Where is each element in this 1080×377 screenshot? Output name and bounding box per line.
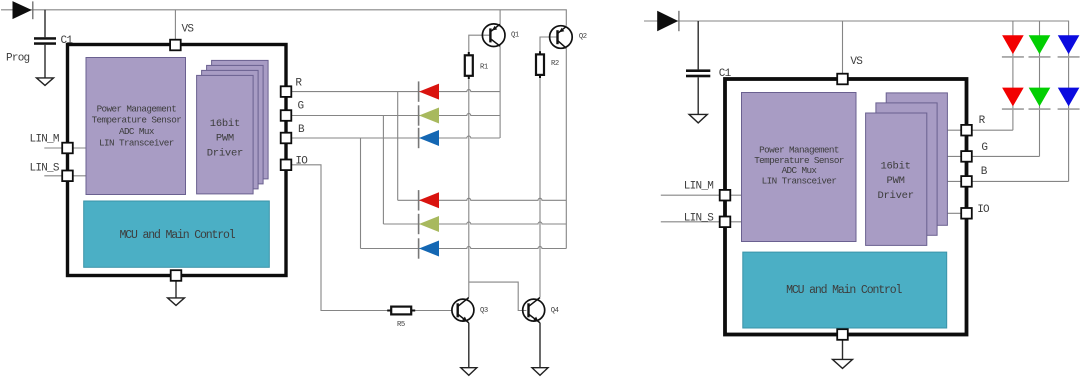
svg-text:LIN_S: LIN_S — [684, 212, 714, 224]
svg-text:Driver: Driver — [207, 148, 243, 160]
svg-text:Power Management: Power Management — [97, 103, 177, 114]
svg-text:C1: C1 — [61, 35, 74, 47]
svg-text:MCU and Main Control: MCU and Main Control — [786, 284, 902, 297]
svg-text:Q2: Q2 — [579, 33, 587, 41]
svg-text:C1: C1 — [719, 68, 732, 80]
svg-text:R1: R1 — [480, 64, 488, 72]
svg-text:LIN_M: LIN_M — [684, 181, 713, 193]
svg-text:Temperature Sensor: Temperature Sensor — [92, 115, 182, 126]
svg-text:Q3: Q3 — [480, 307, 488, 315]
svg-text:Power Management: Power Management — [759, 144, 839, 155]
svg-text:Q1: Q1 — [511, 32, 519, 40]
svg-text:Prog: Prog — [6, 53, 30, 65]
svg-text:IO: IO — [295, 156, 308, 168]
svg-text:LIN Transceiver: LIN Transceiver — [99, 138, 174, 149]
svg-text:Temperature Sensor: Temperature Sensor — [754, 155, 844, 166]
svg-text:Driver: Driver — [877, 190, 913, 202]
svg-text:MCU and Main Control: MCU and Main Control — [119, 229, 235, 242]
svg-text:VS: VS — [182, 24, 195, 36]
svg-text:16bit: 16bit — [210, 118, 240, 130]
svg-text:R2: R2 — [551, 60, 559, 68]
svg-text:LIN_S: LIN_S — [30, 162, 60, 174]
svg-text:G: G — [298, 101, 304, 113]
svg-text:IO: IO — [977, 204, 990, 216]
svg-text:G: G — [981, 142, 987, 154]
svg-text:VS: VS — [850, 56, 863, 68]
svg-text:16bit: 16bit — [880, 160, 910, 172]
svg-text:PWM: PWM — [887, 175, 905, 187]
svg-text:ADC Mux: ADC Mux — [119, 126, 155, 137]
svg-text:LIN_M: LIN_M — [30, 134, 59, 146]
svg-text:LIN Transceiver: LIN Transceiver — [762, 176, 837, 187]
svg-text:R5: R5 — [397, 321, 405, 329]
svg-text:Q4: Q4 — [551, 307, 559, 315]
svg-text:ADC Mux: ADC Mux — [782, 165, 818, 176]
svg-text:PWM: PWM — [216, 132, 234, 144]
